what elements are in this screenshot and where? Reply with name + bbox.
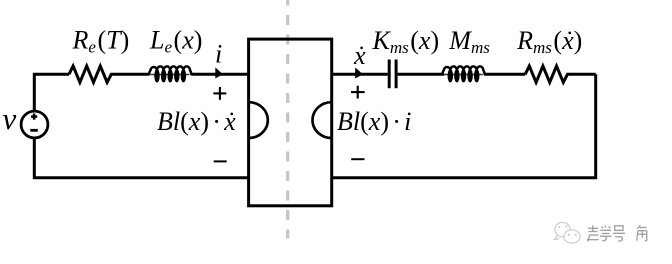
voltage source V — [21, 111, 48, 138]
label plus right — [351, 86, 365, 99]
watermark text xue — [600, 226, 612, 241]
wire top-right from box to capacitor — [332, 73, 388, 76]
watermark text sheng — [587, 225, 599, 241]
dashed symmetry axis — [286, 0, 289, 239]
resistor Re(T) — [69, 66, 115, 82]
watermark text hao — [613, 226, 625, 241]
right rail wire down and back to box — [332, 74, 596, 178]
inductor Mms — [442, 66, 485, 82]
wire inductor Mms to resistor Rms — [484, 73, 525, 76]
svg-text:Le(x): Le(x) — [149, 26, 202, 57]
wire resistor to right rail — [571, 73, 596, 76]
svg-text:ẋ: ẋ — [353, 41, 366, 70]
wire capacitor to inductor Mms — [398, 73, 444, 76]
watermark icon bubbles — [555, 222, 581, 243]
inductor Le(x) — [149, 66, 192, 82]
current arrow i — [215, 67, 223, 78]
left coupling semicircle — [249, 102, 268, 138]
svg-text:Bl(x)·i: Bl(x)·i — [337, 107, 411, 136]
label plus left — [213, 87, 226, 100]
right coupling semicircle — [313, 102, 332, 138]
wire inductor to box — [191, 73, 249, 76]
wire bottom-left from source to box — [34, 138, 248, 178]
capacitor Kms(x) — [388, 60, 391, 89]
label minus left — [214, 160, 227, 162]
svg-text:Re(T): Re(T) — [72, 26, 130, 57]
resistor Rms(xdot) — [525, 66, 571, 82]
label minus right — [351, 158, 364, 160]
svg-text:Bl(x)·ẋ: Bl(x)·ẋ — [157, 107, 236, 136]
gyrator box U1 — [249, 39, 332, 206]
svg-text:i: i — [215, 40, 222, 69]
velocity arrow xdot — [355, 67, 363, 78]
wire top-left from source to resistor — [34, 74, 69, 111]
watermark text jiao — [637, 225, 647, 241]
svg-text:v: v — [3, 101, 17, 136]
wire resistor to inductor — [115, 73, 150, 76]
